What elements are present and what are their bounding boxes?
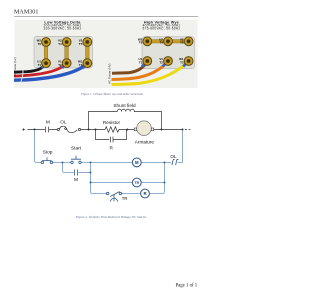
svg-text:T6: T6 <box>139 41 143 45</box>
svg-text:T5: T5 <box>79 42 83 46</box>
svg-text:T3: T3 <box>180 60 184 64</box>
svg-text:M: M <box>46 119 50 124</box>
svg-text:Figure 2. Definite Time Reduce: Figure 2. Definite Time Reduced Voltage … <box>74 215 147 219</box>
svg-text:T2: T2 <box>160 60 164 64</box>
svg-text:575-600VAC, 50-60Hz: 575-600VAC, 50-60Hz <box>143 27 181 31</box>
svg-text:R: R <box>110 146 114 151</box>
svg-text:T6: T6 <box>38 42 42 46</box>
svg-text:T3: T3 <box>79 63 83 67</box>
svg-text:Resistor: Resistor <box>103 120 121 125</box>
svg-text:T4: T4 <box>58 42 62 46</box>
svg-text:330-360VAC, 50-60Hz: 330-360VAC, 50-60Hz <box>44 27 82 31</box>
svg-text:AC Power (LV): AC Power (LV) <box>13 57 17 77</box>
svg-text:Stop: Stop <box>43 150 53 155</box>
svg-text:T1: T1 <box>38 63 42 67</box>
svg-text:Start: Start <box>71 145 82 150</box>
svg-text:Figure 1. 3 Phase Motor wye an: Figure 1. 3 Phase Motor wye and delta co… <box>80 92 143 96</box>
svg-text:TR: TR <box>122 196 128 201</box>
svg-text:Shunt field: Shunt field <box>113 103 136 108</box>
svg-text:M: M <box>74 177 78 182</box>
svg-text:T2: T2 <box>58 63 62 67</box>
svg-text:T4: T4 <box>160 41 164 45</box>
svg-text:OL: OL <box>60 119 67 124</box>
svg-text:Page 1 of 1: Page 1 of 1 <box>175 283 197 288</box>
svg-text:M: M <box>135 160 139 165</box>
svg-text:OL: OL <box>170 154 177 159</box>
svg-text:TR: TR <box>135 181 140 185</box>
svg-text:Armature: Armature <box>135 139 155 144</box>
svg-text:T1: T1 <box>139 60 143 64</box>
svg-text:T5: T5 <box>180 41 184 45</box>
svg-text:AC Power (HV): AC Power (HV) <box>107 63 111 84</box>
svg-text:MAM301: MAM301 <box>14 10 38 16</box>
